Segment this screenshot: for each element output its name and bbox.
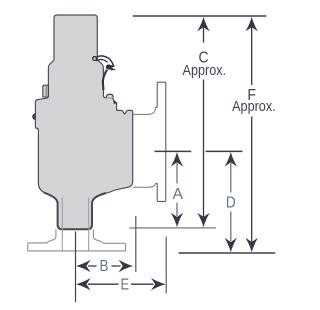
dimension A bbox=[171, 152, 183, 227]
outlet flange plate bbox=[156, 82, 166, 201]
svg-text:Approx.: Approx. bbox=[232, 98, 276, 115]
seal wire bbox=[103, 70, 107, 90]
thick neck outline overlay bbox=[44, 193, 106, 230]
inlet flange bbox=[28, 243, 126, 251]
top extension line bbox=[133, 15, 266, 17]
dimension C bbox=[197, 17, 209, 228]
seal ring bbox=[93, 57, 97, 61]
D/F bottom extension line bbox=[179, 252, 276, 254]
centerline extension bbox=[75, 232, 77, 303]
valve body silhouette bbox=[35, 15, 132, 229]
svg-text:E: E bbox=[121, 276, 130, 293]
svg-text:D: D bbox=[226, 195, 236, 212]
B extension line bbox=[135, 216, 137, 272]
left nub bbox=[32, 113, 35, 120]
ledge dome bbox=[106, 94, 113, 98]
E extension line bbox=[165, 237, 167, 294]
seal knot bbox=[106, 64, 111, 69]
seal lever arcs bbox=[97, 56, 114, 66]
svg-text:A: A bbox=[173, 186, 184, 203]
A/D top extension lines bbox=[155, 150, 192, 152]
inlet skirt right bbox=[93, 229, 102, 243]
outlet hub outline bbox=[133, 107, 156, 114]
dimension B bbox=[76, 260, 133, 272]
svg-text:Approx.: Approx. bbox=[183, 62, 227, 79]
left tab boss bbox=[43, 85, 49, 97]
dimension E bbox=[76, 278, 166, 290]
bore lines bbox=[61, 198, 63, 251]
dimension D bbox=[225, 152, 237, 252]
inlet skirt left bbox=[47, 229, 56, 243]
dimension F bbox=[246, 17, 258, 253]
A/C bottom extension line bbox=[129, 227, 215, 229]
svg-text:B: B bbox=[100, 258, 109, 275]
wedge notch bbox=[113, 100, 117, 104]
